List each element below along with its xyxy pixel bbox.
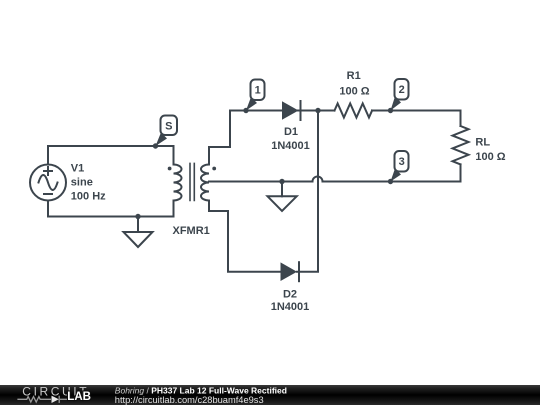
svg-text:D1: D1 (284, 126, 298, 138)
svg-text:100 Ω: 100 Ω (475, 151, 505, 163)
svg-text:sine: sine (71, 176, 93, 188)
svg-text:100 Ω: 100 Ω (339, 85, 369, 97)
svg-text:1N4001: 1N4001 (271, 140, 310, 152)
svg-text:http://circuitlab.com/c28buamf: http://circuitlab.com/c28buamf4e9s3 (115, 395, 264, 405)
svg-text:V1: V1 (71, 162, 84, 174)
svg-text:3: 3 (399, 156, 405, 168)
svg-text:XFMR1: XFMR1 (173, 225, 210, 237)
svg-text:100 Hz: 100 Hz (71, 190, 106, 202)
svg-text:RL: RL (475, 137, 490, 149)
svg-text:LAB: LAB (67, 391, 91, 403)
svg-text:R1: R1 (347, 70, 361, 82)
svg-text:1N4001: 1N4001 (271, 301, 310, 313)
svg-text:S: S (165, 120, 172, 132)
svg-text:2: 2 (399, 84, 405, 96)
svg-text:Bohring / PH337 Lab 12 Full-Wa: Bohring / PH337 Lab 12 Full-Wave Rectifi… (115, 385, 287, 395)
svg-text:1: 1 (255, 85, 261, 97)
svg-text:D2: D2 (283, 288, 297, 300)
